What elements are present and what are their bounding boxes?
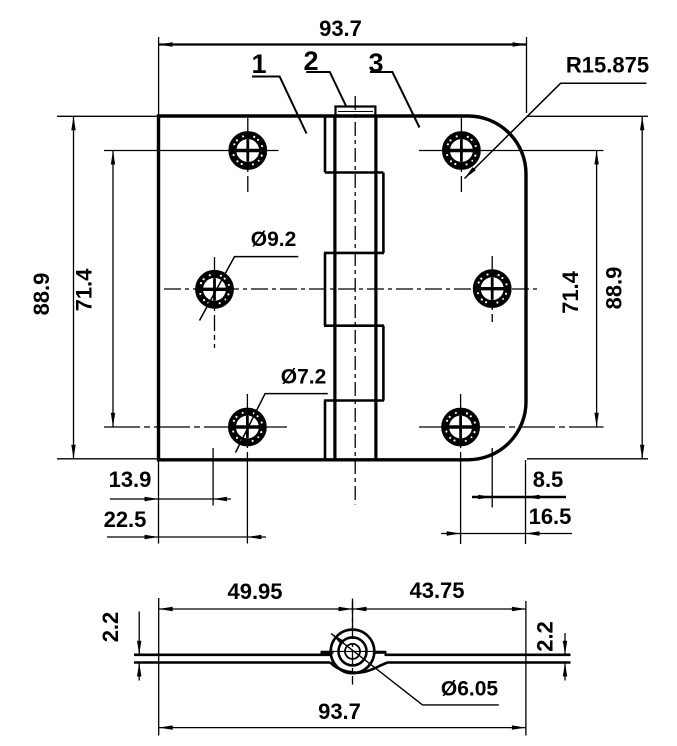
barrel right edge [374, 116, 377, 460]
hinge outer outline (leaves, rounded right corners R15.875) [159, 116, 527, 460]
dimension 88.9 right: extension lines [527, 115, 648, 117]
dimension Ø7.2: leader [236, 394, 328, 453]
leaf bottom surface line left part [134, 661, 330, 664]
svg-text:2.2: 2.2 [98, 612, 123, 643]
barrel outer circle [331, 630, 375, 674]
hole H2 middle-left ring [199, 274, 230, 305]
bottom extension line from middle-right hole [491, 448, 493, 508]
svg-text:93.7: 93.7 [318, 699, 361, 724]
svg-text:88.9: 88.9 [602, 267, 627, 310]
dimension 88.9 left: dimension line [73, 116, 75, 459]
svg-text:Ø9.2: Ø9.2 [251, 228, 297, 251]
hole H4 vertical centerline [460, 118, 462, 193]
svg-text:R15.875: R15.875 [566, 53, 649, 78]
leaf wrap bar left [321, 651, 334, 654]
dimension 88.9 left: extension lines [57, 115, 159, 117]
part label 2 leader [306, 72, 346, 107]
svg-text:3: 3 [368, 48, 383, 78]
svg-text:8.5: 8.5 [533, 467, 564, 492]
bottom extension line from bottom-left hole [246, 460, 248, 544]
hole H2 vertical centerline [214, 257, 216, 348]
hole H4 top-right ring [446, 135, 477, 166]
barrel middle circle [339, 637, 367, 665]
hole H5 vertical centerline [491, 256, 493, 322]
hole H6 bottom-right ring [445, 412, 476, 443]
hole H3 vertical centerline [246, 394, 248, 460]
dimension 22.5: dimension line [107, 536, 266, 538]
hole H3 center cross [234, 425, 260, 428]
svg-text:13.9: 13.9 [109, 467, 152, 492]
part label 1 leader [252, 77, 307, 134]
svg-text:2.2: 2.2 [533, 621, 558, 652]
svg-text:49.95: 49.95 [227, 579, 282, 604]
knuckle joint line 3 [324, 324, 384, 327]
bottom extension line from right plate edge [525, 460, 527, 544]
dimension 71.4 left: dimension line [112, 151, 114, 427]
dimension 2.2 right: dimension line and arrows [564, 633, 566, 655]
svg-text:1: 1 [251, 49, 266, 79]
dimension 93.7 top: extension lines [158, 37, 160, 115]
hole H5 center cross [479, 287, 505, 290]
barrel vertical centerline [352, 601, 354, 685]
dimension 49.95/43.75: extension lines [158, 598, 160, 736]
leaf wrap curve under barrel [330, 662, 388, 672]
leaf top surface line left part [134, 653, 331, 656]
bottom extension line from bottom-right hole [460, 460, 462, 544]
leaf top surface line right part [385, 653, 571, 656]
hole H1 top-left ring [232, 135, 263, 166]
hole H6 center cross [448, 425, 474, 428]
knuckle joint line 1 [325, 171, 383, 174]
barrel left edge [333, 116, 336, 460]
hole row centerline middle (dash-dot) [164, 288, 540, 290]
hole H5 middle-right ring [477, 273, 508, 304]
dimension 93.7 top: dimension line [159, 43, 527, 45]
leaf bottom surface line right part [388, 661, 571, 664]
svg-text:Ø6.05: Ø6.05 [441, 678, 499, 701]
left leaf knuckle cut line segment 2 [324, 253, 327, 326]
hole H2 center cross [202, 288, 228, 291]
right leaf knuckle cut line segment 1 [382, 173, 385, 253]
dimension Ø6.05: leader [331, 634, 499, 705]
barrel horizontal centerline [321, 650, 386, 652]
hole row centerline bottom-right [419, 426, 604, 428]
svg-text:71.4: 71.4 [558, 270, 583, 314]
bottom extension line from left plate edge [158, 460, 160, 544]
dimension 49.95/43.75: dimension line [159, 608, 526, 610]
hole H1 center cross [235, 149, 261, 152]
pin cap inner line [338, 111, 373, 113]
hole H1 vertical centerline [247, 118, 249, 193]
svg-text:22.5: 22.5 [104, 507, 147, 532]
dimension 71.4 right: dimension line [596, 151, 598, 427]
knuckle joint line 4 [324, 399, 384, 402]
hole row centerline top-left [104, 150, 279, 152]
hole row centerline bottom-left [104, 426, 287, 428]
knuckle joint line 2 [324, 252, 384, 255]
part label 3 leader [370, 72, 420, 128]
dimension 93.7 bottom: dimension line [159, 727, 526, 729]
left leaf knuckle cut line segment 3 [324, 401, 327, 460]
pin cap [336, 107, 376, 117]
hole H6 vertical centerline [460, 394, 462, 460]
svg-text:88.9: 88.9 [29, 273, 54, 316]
left leaf knuckle cut line segment 1 [324, 116, 327, 173]
hole H3 bottom-left ring [232, 412, 263, 443]
right leaf knuckle cut line segment 2 [382, 326, 385, 401]
dimension 8.5: dimension line [472, 496, 566, 499]
hole row centerline top-right [419, 150, 604, 152]
leaf wrap bar right [374, 651, 387, 654]
dimension 88.9 right: dimension line [641, 116, 643, 459]
dimension Ø9.2: leader [200, 257, 299, 321]
hole H4 center cross [448, 149, 474, 152]
bottom extension line from middle-left hole [212, 448, 214, 506]
svg-text:16.5: 16.5 [529, 504, 572, 529]
pin hole circle [345, 644, 360, 659]
svg-text:Ø7.2: Ø7.2 [281, 366, 327, 389]
pin centerline [354, 96, 356, 505]
dimension 13.9: dimension line [110, 498, 231, 500]
dimension R15.875: leader [465, 83, 647, 178]
dimension 2.2 left: dimension line and arrows [138, 612, 140, 655]
svg-text:93.7: 93.7 [319, 16, 362, 41]
dimension 16.5: dimension line [441, 533, 572, 535]
svg-text:71.4: 71.4 [72, 268, 97, 312]
svg-text:43.75: 43.75 [409, 578, 464, 603]
